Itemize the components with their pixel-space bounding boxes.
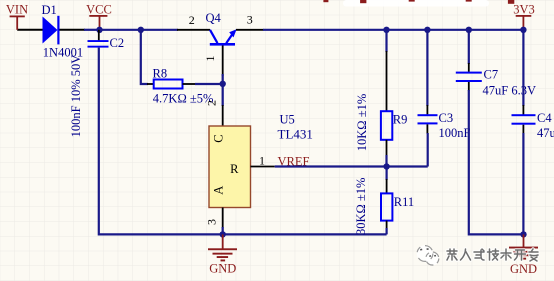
resistor R8 [154,80,183,89]
power port VCC [86,3,112,30]
junction VREF node [383,163,389,169]
wire C7 to GND rail right [469,90,524,234]
wire VCC node to R8 tap [100,29,141,31]
red crop marks top edge [323,0,514,4]
svg-text:1: 1 [203,56,217,62]
wire D1 cathode to VCC node [60,29,86,31]
svg-text:GND: GND [209,262,236,276]
wire R8 to base node [195,83,223,85]
svg-text:R11: R11 [394,195,414,209]
wire R9 to VREF node [385,155,387,167]
ground GND right [509,234,538,275]
resistor R8 pin right [183,83,197,85]
capacitor C4 pin bottom [522,125,524,134]
transistor Q4 [210,29,237,45]
svg-text:C4: C4 [537,111,552,125]
transistor Q4 pin 3 [236,29,264,31]
svg-text:VCC: VCC [86,3,112,17]
wire 3V3 node to C4 [522,30,524,106]
IC U5 body [209,126,251,208]
junction C3 tap [424,27,430,33]
svg-text:A: A [212,186,226,195]
wire R9 tap down [385,30,387,52]
svg-text:C2: C2 [110,36,125,50]
wire R11 to GND rail [386,228,388,234]
svg-text:VIN: VIN [6,3,28,17]
svg-text:47uF: 47uF [537,126,554,140]
capacitor C3 pin top [426,105,428,114]
capacitor C3 pin bottom [426,124,428,134]
wire base node [222,74,224,106]
junction VCC node [96,27,102,33]
wire C3 to VREF wire [427,133,429,167]
wire VREF [275,165,428,167]
IC U5 pin 3 [222,208,224,229]
svg-text:R: R [230,162,239,176]
svg-text:1: 1 [259,153,265,167]
svg-text:C: C [212,134,226,142]
svg-text:2: 2 [205,100,219,106]
IC U5 pin 1 [251,166,275,168]
wire C2 to bottom GND rail [99,48,223,235]
svg-text:R8: R8 [153,66,168,80]
capacitor C3 [418,114,438,124]
capacitor C4 [512,114,536,125]
wire U5 pin3 to GND rail [222,227,224,234]
resistor R9 [381,111,392,140]
svg-text:R9: R9 [393,112,408,126]
capacitor C7 pin bottom [468,82,470,91]
resistor R11 [381,193,392,220]
svg-text:3: 3 [247,13,253,27]
junction GND right [520,231,526,237]
capacitor C4 pin top [522,105,524,115]
svg-text:TL431: TL431 [278,127,313,142]
svg-text:10KΩ ±1%: 10KΩ ±1% [355,94,369,151]
junction R9 tap [383,27,389,33]
watermark logo [417,245,439,265]
diode D1 [43,16,60,45]
capacitor C7 [456,72,482,82]
svg-text:100nF 10% 50V: 100nF 10% 50V [69,55,83,138]
power port 3V3 [513,2,535,29]
svg-text:3V3: 3V3 [513,2,535,16]
junction GND left [220,231,226,237]
resistor R9 pin top [386,51,388,111]
power port VIN [6,3,28,30]
junction 3V3 node [520,27,526,33]
wire Q4 emitter to 3V3 node [263,29,523,31]
transistor Q4 pin 1 (base) [222,46,224,77]
wire VIN to D1 anode [17,29,42,31]
capacitor C2 pin top [98,30,100,41]
watermark text 嵌入式技术开发 [447,249,538,261]
wire to Q4 pin 2 [141,29,178,31]
transistor Q4 pin 2 [177,29,210,31]
svg-text:GND: GND [510,262,537,276]
white band top (cropped watermark casing) [343,0,489,7]
wire VREF node to R11 [386,167,388,181]
junction C7 tap [466,27,472,33]
svg-text:2: 2 [189,13,195,27]
ground GND left [208,234,237,275]
wire C7 tap down [468,30,470,64]
svg-text:U5: U5 [280,113,295,127]
svg-text:3: 3 [205,219,219,225]
svg-text:47uF 6.3V: 47uF 6.3V [483,84,536,98]
resistor R8 pin left [147,83,154,85]
resistor R9 pin bottom [386,140,388,156]
capacitor C7 pin top [468,63,470,72]
wire C4 to GND right [522,133,524,234]
junction R8 tap [138,27,144,33]
resistor R11 pin bottom [386,221,388,229]
resistor R11 pin top [386,179,388,193]
IC U5 pin 2 [222,105,224,126]
svg-text:30KΩ ±1%: 30KΩ ±1% [354,178,368,235]
svg-text:C3: C3 [439,111,454,125]
svg-text:100nF: 100nF [439,126,471,140]
wire R8 tap down [141,30,148,84]
junction base node [220,81,226,87]
capacitor C2 [88,40,109,48]
wire bottom GND rail right part [223,233,387,235]
svg-text:C7: C7 [484,68,499,82]
svg-text:Q4: Q4 [206,11,222,25]
wire C3 tap down [426,30,428,106]
svg-text:D1: D1 [42,3,57,17]
